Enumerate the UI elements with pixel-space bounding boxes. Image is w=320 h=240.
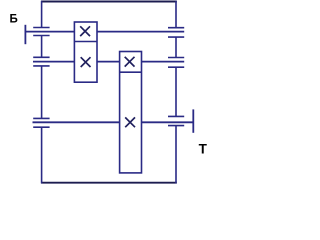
input shaft I right segment (gear block 1 to right wall) <box>97 31 184 33</box>
bearing shaft II left wall lower tick <box>33 65 49 67</box>
bearing shaft II left wall upper tick <box>33 56 49 58</box>
output shaft III left segment <box>33 121 120 123</box>
housing left wall segment between shaft I and shaft II bearings <box>41 36 43 58</box>
input shaft I left segment (from Б coupling to gear block 1) <box>25 31 74 33</box>
housing right wall segment below shaft III bearing <box>175 126 177 184</box>
svg-text:Т: Т <box>199 142 208 157</box>
housing right wall segment between shaft II and shaft III bearings <box>175 67 177 116</box>
svg-text:Б: Б <box>10 14 18 26</box>
shaft end bar Б <box>24 25 26 44</box>
clutch cross X4 on shaft III in gear block 2 <box>125 117 135 127</box>
gear block 2 divider line <box>120 71 142 73</box>
bearing shaft I left wall lower tick <box>33 35 49 37</box>
intermediate shaft II right segment <box>142 61 185 63</box>
bearing shaft I right wall upper tick <box>168 27 184 29</box>
housing left wall segment below shaft III bearing <box>41 127 43 183</box>
housing bottom wall <box>41 182 177 184</box>
housing right wall segment between shaft I and shaft II bearings <box>175 37 177 57</box>
gear block 2 housing rectangle <box>120 52 142 173</box>
housing left wall segment above shaft I bearing <box>41 1 43 28</box>
bearing shaft I right wall lower tick <box>168 36 184 38</box>
clutch cross X2 on shaft II in gear block 1 <box>81 57 91 67</box>
intermediate shaft II middle segment (between gear blocks) <box>97 61 120 63</box>
gear block 1 divider line <box>74 41 97 43</box>
intermediate shaft II left segment <box>33 61 74 63</box>
gear block 1 housing rectangle <box>74 22 97 82</box>
bearing shaft I left wall upper tick <box>33 27 49 29</box>
shaft end bar Т <box>192 109 194 132</box>
bearing shaft II right wall upper tick <box>168 57 184 59</box>
bearing shaft III right wall lower tick <box>168 125 184 127</box>
output shaft III right segment (gear block 2 to Т coupling) <box>142 121 194 123</box>
housing top wall <box>41 1 177 3</box>
bearing shaft III left wall upper tick <box>33 117 49 119</box>
clutch cross X1 on shaft I in gear block 1 <box>80 26 90 36</box>
bearing shaft III left wall lower tick <box>33 126 49 128</box>
bearing shaft III right wall upper tick <box>168 115 184 117</box>
housing left wall segment between shaft II and shaft III bearings <box>41 66 43 119</box>
clutch cross X3 on shaft II in gear block 2 <box>125 57 135 67</box>
bearing shaft II right wall lower tick <box>168 66 184 68</box>
housing right wall segment above shaft I bearing <box>175 1 177 28</box>
